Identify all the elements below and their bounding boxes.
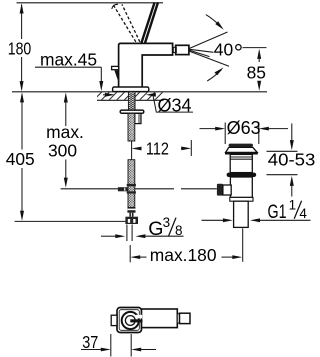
dim G1 1/4 arrows — [202, 218, 311, 222]
bottom view neck — [177, 314, 179, 323]
deck line — [12, 91, 267, 93]
pop-up knob tab — [112, 66, 119, 69]
flexible hose (braided) — [128, 113, 135, 207]
lever (solid) — [141, 2, 154, 43]
svg-text:300: 300 — [48, 140, 77, 160]
dim 85 vertical — [257, 49, 261, 91]
mounting nut — [135, 113, 141, 123]
bottom view body — [117, 308, 142, 333]
pop-up tube — [230, 177, 252, 197]
dim 180 vertical line — [20, 3, 24, 91]
pop-up rod horizontal reference line — [61, 188, 174, 190]
svg-text:Ø63: Ø63 — [227, 118, 261, 138]
pop-up lock nut — [227, 173, 257, 177]
hose hex segment — [129, 213, 133, 217]
dim max.180 — [130, 245, 242, 262]
svg-text:37: 37 — [82, 332, 98, 352]
top reference line — [17, 2, 164, 4]
lower tube — [234, 201, 249, 227]
svg-text:180: 180 — [8, 39, 32, 59]
pop-up neck — [230, 154, 252, 172]
hose connector block — [125, 217, 138, 224]
dim G3/8 arrows — [101, 225, 184, 242]
svg-text:G1: G1 — [268, 201, 287, 223]
pop-up axis extension line — [242, 228, 244, 261]
deck cross-section hatch — [97, 92, 164, 99]
bottom view cartridge circle — [122, 312, 143, 329]
pop-up waste plug disk — [229, 144, 253, 147]
rod knurled adjuster — [217, 184, 223, 196]
pop-up dome — [226, 147, 258, 152]
85 top extension line — [243, 47, 267, 49]
label G3/8 — [148, 215, 182, 240]
rod end fitting — [118, 187, 128, 191]
base plate — [113, 87, 149, 92]
svg-text:40: 40 — [214, 40, 233, 60]
bottom view aerator stub — [180, 313, 191, 323]
deck section bottom line — [97, 99, 164, 101]
dim Ø34 arrows — [103, 93, 156, 112]
dim 40-53 — [267, 123, 298, 196]
dim 37 — [81, 348, 156, 352]
spout-aerator connector — [173, 47, 176, 52]
svg-text:1: 1 — [289, 198, 297, 213]
dim 112 — [132, 140, 192, 156]
svg-text:max.: max. — [46, 122, 84, 142]
dim Ø63 — [200, 123, 289, 145]
svg-text:112: 112 — [146, 138, 169, 158]
bottom view extension lines — [110, 334, 112, 357]
svg-text:3: 3 — [163, 215, 171, 230]
svg-text:max.180: max.180 — [150, 245, 217, 265]
svg-text:max.45: max.45 — [40, 50, 97, 70]
label G1 1/4 — [268, 198, 308, 223]
hose end fitting — [127, 207, 135, 212]
spray fan rays — [190, 32, 230, 66]
coupling — [230, 197, 253, 201]
faucet body outline — [119, 43, 173, 88]
bottom view spout — [142, 309, 178, 328]
aerator box — [176, 45, 189, 54]
horseshoe nut washer — [120, 110, 144, 113]
40 deg arc arrows — [206, 15, 224, 81]
dim 405 vertical line — [20, 92, 24, 221]
svg-text:40-53: 40-53 — [268, 150, 316, 170]
rod lever housing — [223, 185, 231, 195]
hose collar lower — [127, 191, 136, 193]
pop-up rod wedge — [114, 70, 118, 82]
swing arc — [112, 4, 118, 9]
svg-text:85: 85 — [247, 63, 266, 83]
threaded shank — [129, 92, 136, 110]
svg-text:405: 405 — [6, 149, 35, 169]
405 bottom reference line — [15, 220, 126, 222]
lever swing dashed lines — [113, 4, 136, 42]
dim max.300 vertical line — [64, 92, 68, 187]
bottom view tab — [111, 315, 117, 325]
hose collar upper — [127, 184, 136, 186]
svg-text:4: 4 — [299, 206, 307, 221]
